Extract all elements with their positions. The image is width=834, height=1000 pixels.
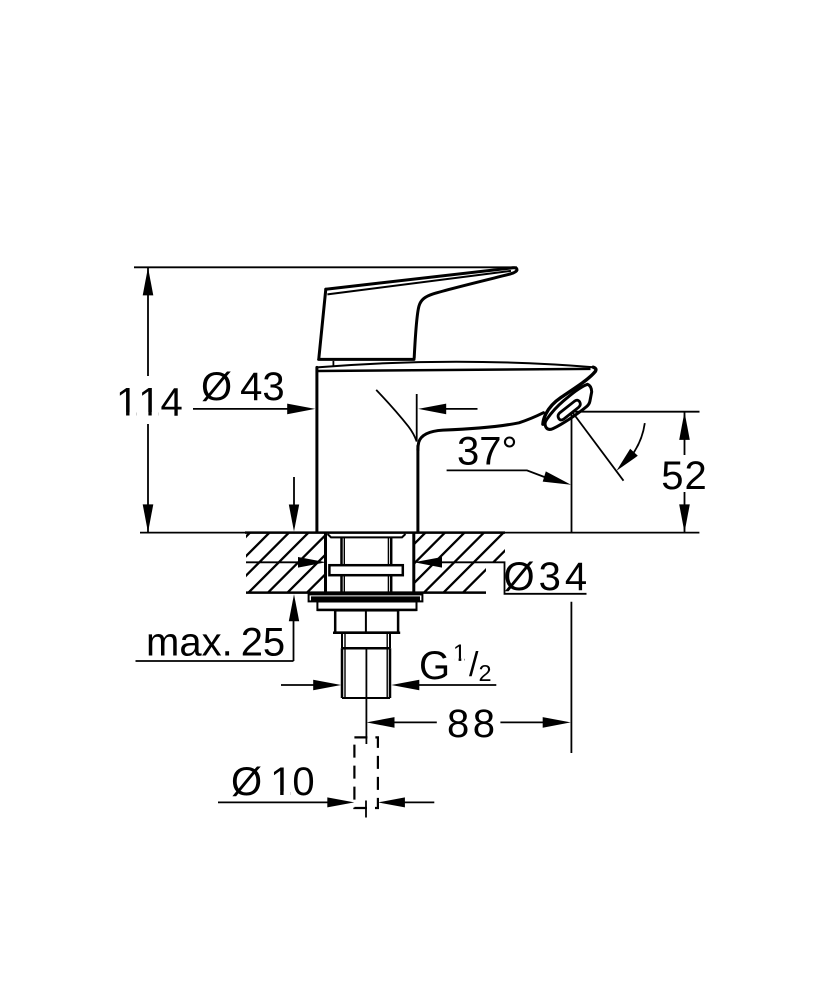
max25 upper arrow <box>293 477 295 506</box>
svg-text:Ø 43: Ø 43 <box>201 365 285 409</box>
dimension 88 line <box>393 721 544 723</box>
max25 lower arrow and leader <box>293 620 295 661</box>
svg-text:37°: 37° <box>457 430 518 474</box>
37deg angle arc <box>634 423 645 452</box>
countertop surface line <box>140 532 699 534</box>
aerator housing outline <box>545 384 592 429</box>
body top plate lower edge <box>317 369 591 371</box>
svg-text:G: G <box>419 644 450 688</box>
svg-text:52: 52 <box>661 454 708 498</box>
flexible hose dashed outline <box>354 737 378 808</box>
svg-text:2: 2 <box>479 660 492 686</box>
svg-text:Ø34: Ø34 <box>504 555 592 599</box>
lever handle top edge <box>326 268 517 289</box>
dimension D10 line <box>218 801 328 803</box>
countertop bottom line <box>246 591 486 594</box>
shank thread walls in hole <box>342 537 392 592</box>
shank pipe end <box>342 697 390 699</box>
dimension D43 line right <box>445 408 478 410</box>
svg-text:Ø 10: Ø 10 <box>231 760 315 804</box>
thread relief ring <box>342 633 390 649</box>
shank spacer ring <box>329 565 402 575</box>
svg-text:88: 88 <box>447 702 499 746</box>
mounting hole left edge <box>324 534 327 593</box>
88 right extension line <box>570 602 572 753</box>
lever handle inner top line <box>327 271 511 295</box>
top extension line (handle tip level) <box>134 266 517 268</box>
dimension 114 vertical line <box>147 267 149 532</box>
mounting hex nut <box>335 610 398 632</box>
svg-text:1: 1 <box>453 640 466 666</box>
mounting plate second step <box>317 602 416 611</box>
body right edge <box>416 446 419 532</box>
extension line body right edge <box>416 394 418 441</box>
parting tick under handle <box>332 361 334 366</box>
svg-text:114: 114 <box>116 381 183 425</box>
lever handle left edge <box>319 289 326 358</box>
mounting hole right edge <box>412 534 415 593</box>
aerator outlet slot <box>558 400 580 420</box>
serif covers for 1 glyphs <box>119 412 127 416</box>
threaded shank pipe <box>342 648 390 698</box>
dimension D43 line left <box>193 408 288 410</box>
spout end face diagonal <box>543 367 596 424</box>
supply centerline <box>365 648 367 744</box>
faucet base lip below deck <box>328 534 406 537</box>
dimension 52 vertical line <box>684 412 686 533</box>
body left edge <box>315 367 318 532</box>
lever handle bottom edge <box>319 358 414 361</box>
body top plate upper edge <box>317 362 593 368</box>
dimension G12 line <box>281 684 314 686</box>
svg-text:max. 25: max. 25 <box>146 621 285 665</box>
lever handle underside curve <box>414 270 517 358</box>
escutcheon plate <box>309 594 423 601</box>
spout underside curve <box>418 413 544 450</box>
37deg vertical reference line <box>571 412 573 533</box>
hose bottom centerline tick <box>365 801 367 818</box>
countertop hatching <box>129 530 371 596</box>
max25 underline <box>136 660 294 662</box>
body-spout blend silhouette curve <box>376 390 417 442</box>
37deg angled stream line <box>573 413 624 481</box>
svg-text:/: / <box>469 646 479 684</box>
dimension 114 arrowheads <box>143 267 154 295</box>
37deg leader line <box>447 470 548 478</box>
aerator level extension line <box>573 411 700 413</box>
dimension D34 line <box>246 562 587 594</box>
